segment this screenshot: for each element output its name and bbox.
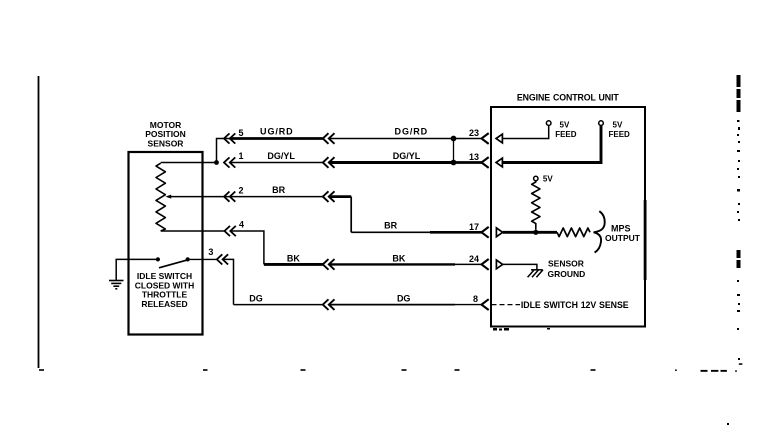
- idle switch S1: [156, 257, 190, 268]
- svg-text:8: 8: [473, 294, 478, 304]
- svg-text:BR: BR: [272, 185, 285, 195]
- svg-text:17: 17: [469, 222, 479, 232]
- svg-text:24: 24: [469, 254, 479, 264]
- resistor R2 pull-up (vertical): [532, 181, 540, 230]
- junction node C dot (DG/YL to pin 13): [451, 160, 457, 166]
- svg-text:FEED: FEED: [555, 130, 577, 139]
- connector chevron at pin 17: [482, 227, 489, 238]
- svg-text:SENSOR: SENSOR: [148, 138, 184, 148]
- wire pin 24 to chassis ground: [503, 264, 537, 269]
- wire pin 17 to junction (thick): [503, 231, 536, 234]
- inline connector (double chevron) W1 mid: [323, 157, 335, 168]
- label SENSOR GROUND: [548, 259, 586, 280]
- junction node B dot (DG/RD to pin 23): [451, 136, 457, 142]
- svg-text:DG: DG: [249, 293, 263, 303]
- inline connector (double chevron) W5 mid: [323, 133, 335, 144]
- svg-text:BK: BK: [392, 253, 405, 263]
- earth ground symbol (sensor side): [109, 281, 124, 289]
- perforation dash row (page fold marks): [39, 363, 742, 372]
- wire: branch up to pin 5 row: [217, 139, 230, 163]
- wire W1 DG/YL left segment: [230, 162, 323, 164]
- connector (double chevron) on pin 2 wire: [224, 192, 235, 202]
- svg-text:GROUND: GROUND: [548, 269, 586, 279]
- engine control unit box: [491, 107, 645, 327]
- svg-text:BR: BR: [384, 221, 397, 231]
- pin 17 port triangle: [496, 228, 502, 237]
- wire W2 thick jog segment: [329, 195, 351, 198]
- label: MOTOR POSITION SENSOR: [145, 120, 186, 149]
- svg-text:OUTPUT: OUTPUT: [605, 233, 641, 243]
- inline connector (double chevron) DG mid: [323, 299, 335, 310]
- wire DG left segment: [234, 304, 323, 306]
- svg-text:3: 3: [208, 247, 213, 257]
- svg-text:13: 13: [469, 152, 479, 162]
- wire DG/RD segment to junction: [329, 138, 454, 140]
- wire W4 jog down: [230, 231, 264, 264]
- wire W2 vertical drop: [350, 197, 352, 233]
- svg-text:5: 5: [238, 128, 243, 138]
- svg-text:23: 23: [469, 128, 479, 138]
- wire: switch left terminal to ground: [116, 259, 158, 280]
- svg-text:1: 1: [238, 151, 243, 161]
- svg-text:IDLE SWITCH 12V SENSE: IDLE SWITCH 12V SENSE: [521, 300, 629, 310]
- wire BR run to pin 17: [351, 231, 430, 233]
- label 5V FEED (1): [555, 120, 577, 139]
- terminal circle 5V feed 1: [546, 121, 551, 126]
- wire W3 jog down to DG row: [223, 259, 234, 304]
- connector (double chevron) on pin 3 wire: [217, 254, 228, 264]
- wire: pot bottom lead to pin 4: [161, 230, 225, 232]
- svg-text:ENGINE CONTROL UNIT: ENGINE CONTROL UNIT: [517, 93, 619, 103]
- wire: switch right terminal to pin 3: [188, 258, 217, 260]
- svg-text:5V: 5V: [543, 175, 553, 184]
- connector (double chevron) on pin 1 wire: [224, 157, 235, 167]
- inline connector (double chevron) W2 mid: [323, 191, 335, 202]
- wire pin 23 to 5V feed terminal: [503, 125, 549, 138]
- label MPS OUTPUT: [605, 224, 641, 244]
- connector (double chevron) on pin 4 wire: [225, 226, 236, 236]
- svg-text:DG/YL: DG/YL: [267, 151, 295, 161]
- terminal circle 5V feed 2: [599, 121, 604, 126]
- inline connector (double chevron) BK mid: [323, 259, 335, 270]
- wire DG/YL thick segment to node C: [329, 161, 454, 164]
- wire pin 13 to 5V feed terminal (thick): [503, 125, 601, 162]
- potentiometer R1 (MPS element): [156, 163, 165, 231]
- svg-text:DG/RD: DG/RD: [395, 127, 429, 137]
- wire BK segment to pin 24: [329, 263, 455, 265]
- svg-text:MPS: MPS: [611, 224, 631, 234]
- svg-text:BK: BK: [287, 253, 300, 263]
- wire node B to pin 23 chevron: [454, 138, 482, 140]
- scan artifact: thick stretch of ECU right border: [644, 200, 647, 280]
- label: IDLE SWITCH CLOSED WITH THROTTLE RELEASED: [135, 271, 195, 309]
- vertical tie wire node B to node C: [453, 139, 455, 163]
- svg-text:DG: DG: [397, 293, 411, 303]
- pin 13 port triangle: [496, 158, 502, 167]
- chassis ground symbol (sensor ground): [528, 270, 543, 277]
- pin 23 port triangle: [496, 134, 502, 143]
- wire node C to pin 13 chevron (thick): [454, 161, 482, 164]
- junction node D dot (MPS output): [533, 230, 538, 235]
- resistor R3 series (horizontal): [557, 228, 590, 237]
- svg-text:FEED: FEED: [609, 130, 631, 139]
- wire node D to series resistor (thick): [536, 231, 557, 234]
- junction node A (pin1/pin5 branch dot): [214, 160, 219, 165]
- wire: pot top lead to node A: [161, 162, 217, 164]
- svg-text:5V: 5V: [613, 120, 623, 129]
- wire pin 8 stub (dashed): [492, 304, 521, 306]
- connector chevron at pin 24: [482, 259, 489, 270]
- pin 24 port triangle: [496, 260, 502, 269]
- connector (double chevron) on pin 5 wire: [224, 133, 235, 143]
- artifact smudge below ECU box: [493, 328, 550, 331]
- connector chevron at pin 13: [482, 157, 489, 168]
- svg-text:UG/RD: UG/RD: [260, 127, 294, 137]
- terminal circle 5V (pull-up): [534, 176, 538, 180]
- svg-text:5V: 5V: [560, 120, 570, 129]
- svg-text:2: 2: [238, 185, 243, 195]
- wire W5 UG/RD segment (thick): [230, 137, 323, 140]
- wire DG segment to pin 8: [329, 304, 455, 306]
- motor position sensor box: [129, 152, 203, 335]
- svg-text:SENSOR: SENSOR: [548, 259, 584, 269]
- brace for MPS output: [594, 211, 605, 252]
- wire BK thick segment: [264, 263, 323, 266]
- svg-text:4: 4: [239, 220, 244, 230]
- connector chevron at pin 23: [482, 133, 489, 144]
- svg-text:RELEASED: RELEASED: [141, 299, 187, 309]
- page edge artifact marks (right margin, cropped text): [727, 75, 741, 425]
- page border line (left): [38, 76, 40, 368]
- connector chevron at pin 8: [482, 299, 489, 310]
- wiper arrow of potentiometer: [165, 195, 229, 199]
- label 5V FEED (2): [609, 120, 631, 139]
- svg-text:DG/YL: DG/YL: [393, 151, 421, 161]
- wire W2 BR left segment: [230, 196, 323, 198]
